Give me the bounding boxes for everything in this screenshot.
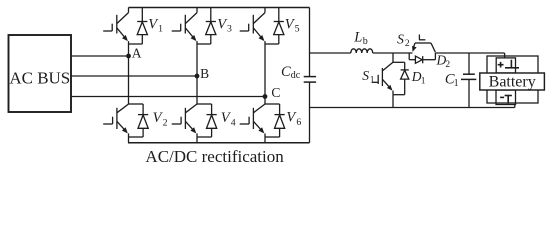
transistor V4 IGBT symbol	[172, 104, 212, 143]
IGBT module V1	[103, 8, 163, 45]
label V5	[285, 16, 300, 34]
diode antiparallel with V4	[207, 104, 217, 137]
transistor S2 IGBT symbol (horizontal)	[412, 35, 435, 53]
node C junction dot	[263, 94, 268, 99]
svg-text:3: 3	[227, 23, 232, 34]
wire battery top entry step	[504, 53, 506, 58]
wire top DC link to inductor	[310, 52, 351, 54]
battery outer box	[487, 56, 538, 103]
svg-text:1: 1	[158, 23, 163, 34]
battery bottom terminal box	[496, 90, 516, 105]
battery negative plate symbol	[505, 96, 512, 104]
IGBT module V4	[172, 104, 236, 143]
wire S2 output to battery	[435, 52, 504, 54]
battery label box	[480, 73, 545, 90]
node A junction dot	[126, 54, 131, 59]
wire bottom DC link to battery	[310, 107, 515, 109]
diode antiparallel with V2	[138, 104, 148, 137]
wire midpoint down to S1	[392, 53, 394, 62]
label Cdc	[281, 64, 301, 81]
svg-text:Battery: Battery	[489, 73, 536, 90]
wire inductor to midpoint node	[373, 52, 413, 54]
AC BUS box	[9, 35, 72, 112]
svg-text:S: S	[362, 68, 369, 83]
svg-text:AC/DC rectification: AC/DC rectification	[145, 147, 284, 166]
wire phase C from AC BUS	[71, 96, 265, 98]
label Lb	[353, 30, 368, 47]
svg-text:C: C	[271, 85, 280, 100]
label V4	[221, 110, 236, 128]
svg-text:1: 1	[454, 78, 459, 89]
IGBT module V2	[103, 104, 167, 143]
IGBT module V3	[172, 8, 232, 45]
label V2	[153, 110, 168, 128]
battery plus sign	[498, 62, 504, 68]
label V3	[217, 16, 232, 34]
capacitor C1 bottom lead	[468, 79, 470, 107]
transistor V6 IGBT symbol	[240, 104, 280, 143]
label C1	[445, 71, 459, 89]
IGBT module V5	[240, 8, 300, 45]
wire leg phase A	[128, 44, 130, 104]
transistor S1 IGBT symbol	[372, 62, 405, 94]
battery positive plate symbol	[505, 60, 519, 68]
node B junction dot	[195, 74, 200, 79]
diode antiparallel with V6	[275, 104, 285, 137]
label D2	[436, 53, 451, 70]
svg-text:2: 2	[445, 60, 450, 70]
wire leg phase B	[196, 44, 198, 104]
svg-text:2: 2	[163, 118, 168, 129]
wire bridge right edge lower (from Cdc)	[309, 82, 311, 143]
svg-text:5: 5	[295, 23, 300, 34]
diode antiparallel with V1	[137, 8, 147, 45]
svg-text:L: L	[353, 30, 362, 46]
label S2	[397, 32, 410, 49]
svg-text:A: A	[132, 45, 142, 60]
label V1	[148, 16, 163, 34]
diode antiparallel with V5	[274, 8, 284, 45]
transistor V1 IGBT symbol	[103, 8, 142, 45]
battery minus sign	[500, 96, 504, 98]
battery top terminal box	[496, 58, 515, 73]
diode D1 antiparallel with S1	[401, 62, 409, 94]
transistor V5 IGBT symbol	[240, 8, 279, 45]
diode D2 antiparallel with S2	[409, 53, 435, 63]
label S1	[362, 68, 375, 85]
label D1	[411, 69, 426, 86]
svg-text:dc: dc	[291, 70, 301, 81]
svg-text:4: 4	[231, 117, 236, 128]
capacitor C1	[461, 74, 476, 79]
wire leg phase C	[264, 44, 266, 104]
svg-text:b: b	[363, 36, 368, 47]
capacitor Cdc	[304, 77, 316, 83]
wire phase B from AC BUS	[71, 75, 197, 77]
svg-text:1: 1	[421, 77, 426, 87]
wire battery bottom entry step	[514, 105, 516, 108]
wire phase A from AC BUS	[71, 55, 129, 57]
svg-text:C: C	[281, 64, 291, 80]
svg-text:S: S	[397, 32, 404, 47]
transistor V3 IGBT symbol	[172, 8, 211, 45]
svg-text:6: 6	[296, 117, 301, 128]
svg-text:2: 2	[405, 39, 410, 49]
wire S1 to bottom rail	[392, 95, 394, 108]
IGBT module S1	[362, 62, 425, 94]
diode antiparallel with V3	[206, 8, 216, 45]
svg-text:B: B	[200, 66, 209, 81]
wire bridge right edge upper (to Cdc)	[309, 8, 311, 77]
label V6	[286, 110, 301, 128]
wire top DC rail	[129, 7, 310, 9]
capacitor C1 branch top lead	[468, 53, 470, 74]
transistor V2 IGBT symbol	[103, 104, 143, 143]
inductor Lb	[351, 49, 373, 53]
svg-text:AC BUS: AC BUS	[9, 69, 70, 88]
IGBT module V6	[240, 104, 302, 143]
IGBT module S2	[397, 32, 450, 70]
svg-text:1: 1	[370, 75, 375, 85]
wire bottom DC rail	[128, 142, 310, 144]
